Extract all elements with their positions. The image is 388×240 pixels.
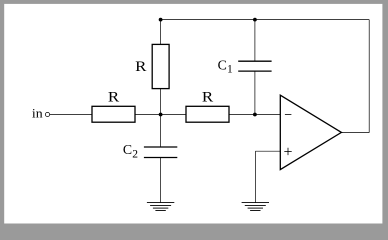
- wire: input terminal to resistor R1: [50, 114, 92, 116]
- input terminal open circle: [45, 112, 49, 116]
- wire: op-amp non-inverting input leftward: [255, 150, 280, 152]
- wire: top rail to capacitor C1: [254, 20, 256, 62]
- junction dot: node B: [253, 113, 257, 117]
- wire: R2 to op-amp inverting input: [229, 114, 280, 116]
- svg-text:R: R: [135, 59, 146, 75]
- svg-text:R: R: [202, 90, 213, 106]
- wire: node A down to capacitor C2: [160, 115, 162, 148]
- op-amp inverting input minus sign: [285, 113, 292, 115]
- junction dot: top rail / C1: [253, 18, 257, 22]
- wire: top rail to vertical resistor R: [160, 20, 162, 45]
- op-amp non-inverting input plus sign: [284, 148, 291, 155]
- ground symbol below C2: [147, 203, 174, 211]
- wire: right feedback drop: [368, 20, 370, 133]
- wire: R1 to R2 through node A: [135, 114, 186, 116]
- resistor R1 body: [92, 106, 135, 122]
- junction dot: node A: [159, 113, 163, 117]
- svg-text:in: in: [32, 106, 43, 121]
- wire: capacitor C2 to ground: [160, 158, 162, 203]
- resistor R3 (vertical feedback) body: [152, 44, 169, 88]
- junction dot: top rail / R3: [159, 18, 163, 22]
- resistor R2 body: [186, 106, 229, 122]
- capacitor C2 top plate: [144, 146, 177, 148]
- wire: top feedback rail: [161, 19, 370, 21]
- capacitor C1 top plate: [238, 60, 271, 62]
- wire: op-amp output to feedback: [341, 132, 369, 134]
- capacitor C1 bottom plate: [238, 70, 271, 72]
- wire: vertical resistor R to node A: [160, 89, 162, 115]
- svg-text:R: R: [108, 90, 119, 106]
- ground symbol below op-amp non-inverting input: [242, 203, 269, 211]
- capacitor C2 bottom plate: [144, 157, 177, 159]
- wire: non-inverting input down to ground: [254, 151, 256, 202]
- wire: capacitor C1 to node B: [254, 71, 256, 114]
- op-amp U1 body: [280, 95, 341, 169]
